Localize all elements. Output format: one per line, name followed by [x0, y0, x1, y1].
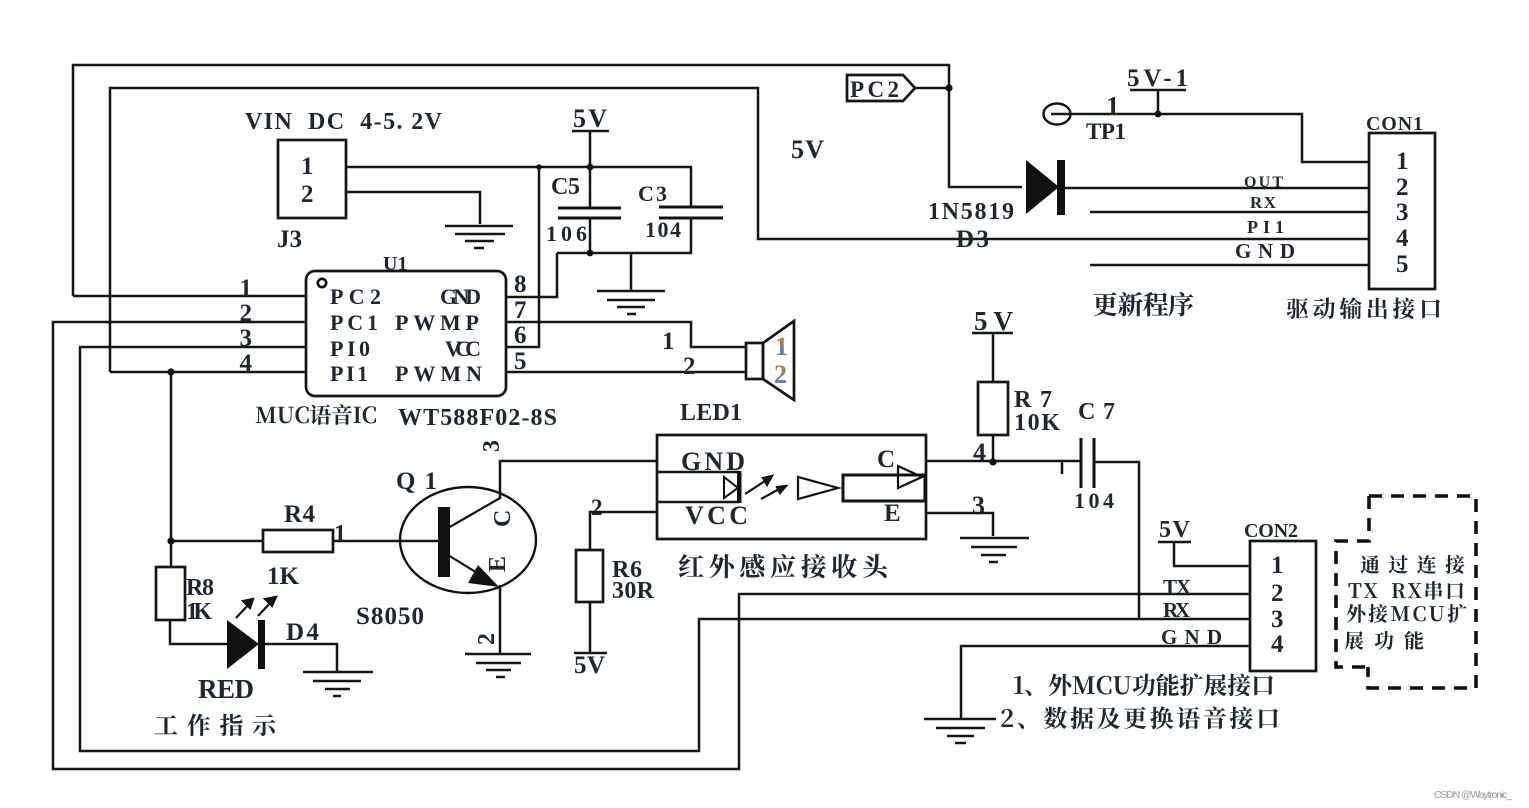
connector CON2 — [1250, 541, 1316, 671]
wire U1 pin2 PC1 to CON2 TX — [53, 322, 1250, 769]
wire LED1 pin3 to ground — [926, 513, 993, 536]
svg-text:5V-1: 5V-1 — [1127, 65, 1188, 92]
ground D4 — [303, 672, 373, 696]
svg-text:2: 2 — [1271, 580, 1284, 607]
svg-text:104: 104 — [1074, 488, 1114, 513]
svg-text:OUT: OUT — [1244, 174, 1283, 191]
wire U1 pin4 PI1 — [110, 371, 306, 374]
svg-text:4: 4 — [240, 350, 253, 377]
dashed note box — [1336, 496, 1476, 688]
wire R8 to D4 — [170, 620, 227, 644]
svg-text:3: 3 — [1271, 606, 1284, 633]
svg-text:C: C — [877, 446, 895, 473]
svg-text:2: 2 — [474, 633, 500, 645]
svg-text:VIN DC 4-5. 2V: VIN DC 4-5. 2V — [245, 109, 443, 135]
speaker LS — [746, 321, 794, 400]
svg-text:RED: RED — [198, 674, 254, 704]
CON2 pin numbers — [1271, 552, 1284, 658]
wire base — [333, 540, 439, 543]
label 红外感应接收头 — [679, 554, 704, 577]
svg-text:R4: R4 — [284, 501, 316, 528]
svg-text:RX: RX — [1163, 598, 1190, 622]
svg-text:C5: C5 — [551, 174, 580, 200]
label 通过连接 — [1360, 555, 1379, 574]
ground CON2 — [924, 719, 996, 743]
svg-text:1: 1 — [240, 275, 253, 302]
label TX RX串口 — [1348, 583, 1361, 598]
svg-text:5V: 5V — [791, 135, 824, 164]
LED1 inner diode sub-rect — [657, 472, 739, 502]
node flag PC2 — [847, 75, 953, 102]
svg-text:106: 106 — [546, 221, 587, 246]
svg-text:2: 2 — [774, 360, 787, 389]
svg-text:5V: 5V — [574, 652, 605, 679]
IR photodiode — [724, 471, 742, 503]
CON2 signal labels — [1161, 575, 1222, 649]
wire PI1 branch down — [171, 372, 263, 541]
svg-text:1: 1 — [775, 332, 788, 361]
svg-text:U1: U1 — [383, 253, 407, 275]
power 5V top — [572, 104, 609, 170]
svg-text:10K: 10K — [1014, 410, 1060, 436]
svg-text:1: 1 — [1271, 552, 1284, 579]
svg-text:2: 2 — [240, 300, 253, 327]
capacitor C5 — [546, 167, 621, 256]
svg-text:J3: J3 — [277, 226, 302, 253]
label 1、外MCU功能扩展接口 — [1014, 676, 1023, 694]
resistor R7 — [972, 306, 1060, 466]
svg-text:2: 2 — [1396, 174, 1409, 201]
wire U1 pin1 PC2 — [73, 295, 306, 298]
svg-text:2: 2 — [591, 495, 603, 520]
svg-text:5: 5 — [1396, 251, 1409, 278]
svg-text:1N5819: 1N5819 — [928, 199, 1014, 225]
op chip U1 — [306, 271, 506, 396]
output transistor triangle — [898, 466, 922, 488]
capacitor C7 — [1074, 399, 1139, 619]
resistor R4 — [263, 501, 346, 590]
wire CON2 GND to ground — [961, 646, 1250, 718]
amplifier triangle — [798, 477, 838, 499]
wire collector up to LED1 pin1 — [500, 461, 657, 499]
svg-text:3: 3 — [240, 325, 253, 352]
wire emitter down — [499, 585, 502, 653]
svg-text:PC2: PC2 — [850, 77, 899, 102]
label 外接MCU扩 — [1347, 604, 1366, 623]
wire D4 to ground — [265, 644, 337, 671]
connector CON1 — [1369, 133, 1435, 289]
ground J3 — [445, 226, 513, 248]
svg-text:6: 6 — [514, 322, 527, 349]
svg-text:3: 3 — [479, 440, 505, 452]
svg-text:5V: 5V — [974, 306, 1014, 336]
wire RX row CON1 — [1090, 211, 1369, 214]
wire LED1 pin4 row to C7 — [926, 460, 1081, 463]
svg-text:E: E — [884, 500, 901, 527]
ground LED1 E — [960, 538, 1029, 562]
resistor R6 — [574, 495, 657, 679]
svg-text:3: 3 — [1396, 199, 1409, 226]
wire J3 pin2 to ground — [346, 192, 480, 224]
svg-text:1K: 1K — [186, 599, 212, 625]
svg-text:7: 7 — [514, 297, 527, 324]
svg-text:1: 1 — [301, 153, 314, 180]
resistor R8 — [156, 541, 214, 625]
transistor Q1 — [333, 440, 657, 653]
svg-text:2: 2 — [301, 181, 314, 208]
svg-text:VCC: VCC — [685, 501, 748, 530]
svg-text:1: 1 — [662, 328, 675, 355]
pin tick C7 — [1061, 462, 1064, 474]
wire VCC drop to U1 pin6 — [506, 167, 539, 347]
svg-text:C3: C3 — [638, 181, 667, 206]
svg-text:GND: GND — [1235, 239, 1295, 263]
ground capacitors — [597, 253, 665, 314]
diode D3 1N5819 — [928, 160, 1065, 253]
svg-text:PI1: PI1 — [330, 361, 368, 386]
label 驱动输出接口 — [1287, 298, 1309, 319]
CON1 pin numbers — [1396, 148, 1409, 278]
svg-text:D4: D4 — [286, 619, 320, 646]
svg-text:C: C — [490, 510, 516, 527]
svg-text:4: 4 — [1396, 225, 1409, 252]
svg-text:VCC: VCC — [445, 336, 481, 361]
label 2、数据及更换语音接口 — [1001, 709, 1013, 727]
wire U1 pin8 GND to cap rail — [506, 253, 557, 297]
svg-text:RX: RX — [1250, 193, 1277, 212]
collector line — [448, 498, 500, 528]
svg-text:CON1: CON1 — [1366, 113, 1423, 135]
U1 pin numbers right — [514, 271, 527, 375]
LED1 inner texts — [681, 446, 901, 530]
svg-text:CON2: CON2 — [1244, 520, 1298, 542]
inner block rect — [843, 475, 925, 501]
IR receiver LED1 box — [657, 435, 926, 539]
label 工作指示 — [155, 715, 178, 734]
label 展功能 — [1345, 631, 1364, 650]
svg-text:PC1: PC1 — [330, 310, 378, 335]
power 5V CON2 — [1158, 517, 1250, 566]
svg-text:4: 4 — [1271, 631, 1284, 658]
svg-text:WT588F02-8S: WT588F02-8S — [398, 405, 557, 431]
svg-text:5V: 5V — [573, 104, 607, 133]
U1 pin texts — [330, 284, 482, 386]
wire PI1 net: U1 pin4 frame to CON1 pin4 — [110, 88, 1369, 372]
svg-text:5V: 5V — [1159, 517, 1191, 543]
connector J3 — [278, 140, 346, 218]
U1 pin numbers left — [240, 275, 253, 377]
svg-text:30R: 30R — [612, 578, 655, 604]
svg-text:GND: GND — [440, 284, 481, 309]
wire PC2 net: U1 pin1 left frame to top to diode anode — [73, 65, 1022, 296]
svg-text:E: E — [485, 556, 511, 572]
LED arrows — [236, 597, 276, 618]
wire J3 pin1 5V rail — [346, 166, 692, 169]
power 5V-1 — [1127, 65, 1188, 117]
wire junction dot VCC rail — [536, 164, 542, 170]
svg-text:S8050: S8050 — [356, 603, 424, 630]
CON1 signal labels — [1235, 174, 1295, 263]
svg-text:PI0: PI0 — [330, 336, 370, 361]
svg-text:4: 4 — [973, 438, 986, 467]
svg-text:LED1: LED1 — [680, 400, 742, 426]
pin1 indicator circle — [318, 279, 326, 287]
wire U1 pin7 to speaker pin1 — [506, 322, 746, 347]
svg-text:PC2: PC2 — [330, 284, 381, 309]
emitter line with arrow — [448, 555, 487, 579]
label 更新程序 — [1093, 292, 1117, 316]
ground Q1 — [465, 654, 531, 677]
wire capacitor bottom rail — [557, 252, 692, 255]
svg-text:CSDN @Waytronic_: CSDN @Waytronic_ — [1434, 789, 1512, 801]
svg-text:1K: 1K — [267, 563, 300, 590]
svg-text:1: 1 — [334, 521, 346, 547]
wire OUT row — [1064, 187, 1369, 190]
svg-text:PI1: PI1 — [1247, 217, 1284, 237]
wire U1 pin5 to speaker pin2 — [506, 371, 746, 374]
svg-text:1: 1 — [1106, 91, 1120, 121]
svg-text:TP1: TP1 — [1086, 119, 1126, 144]
svg-text:104: 104 — [645, 217, 681, 242]
label MUC语音IC — [256, 407, 276, 423]
svg-text:R8: R8 — [186, 575, 214, 601]
svg-text:8: 8 — [514, 271, 527, 298]
IR arrows — [745, 476, 786, 499]
svg-text:2: 2 — [683, 353, 696, 380]
LED D4 — [198, 597, 320, 704]
capacitor C3 — [638, 167, 723, 253]
svg-text:1: 1 — [1396, 148, 1409, 175]
wire U1 pin3 PI0 to CON2 RX — [80, 347, 1250, 751]
test point TP1 — [1044, 91, 1370, 162]
svg-text:D3: D3 — [956, 226, 989, 253]
wire GND row CON1 — [1090, 264, 1369, 267]
base bar — [438, 507, 450, 577]
svg-text:TX: TX — [1163, 575, 1191, 599]
svg-text:3: 3 — [972, 491, 985, 520]
